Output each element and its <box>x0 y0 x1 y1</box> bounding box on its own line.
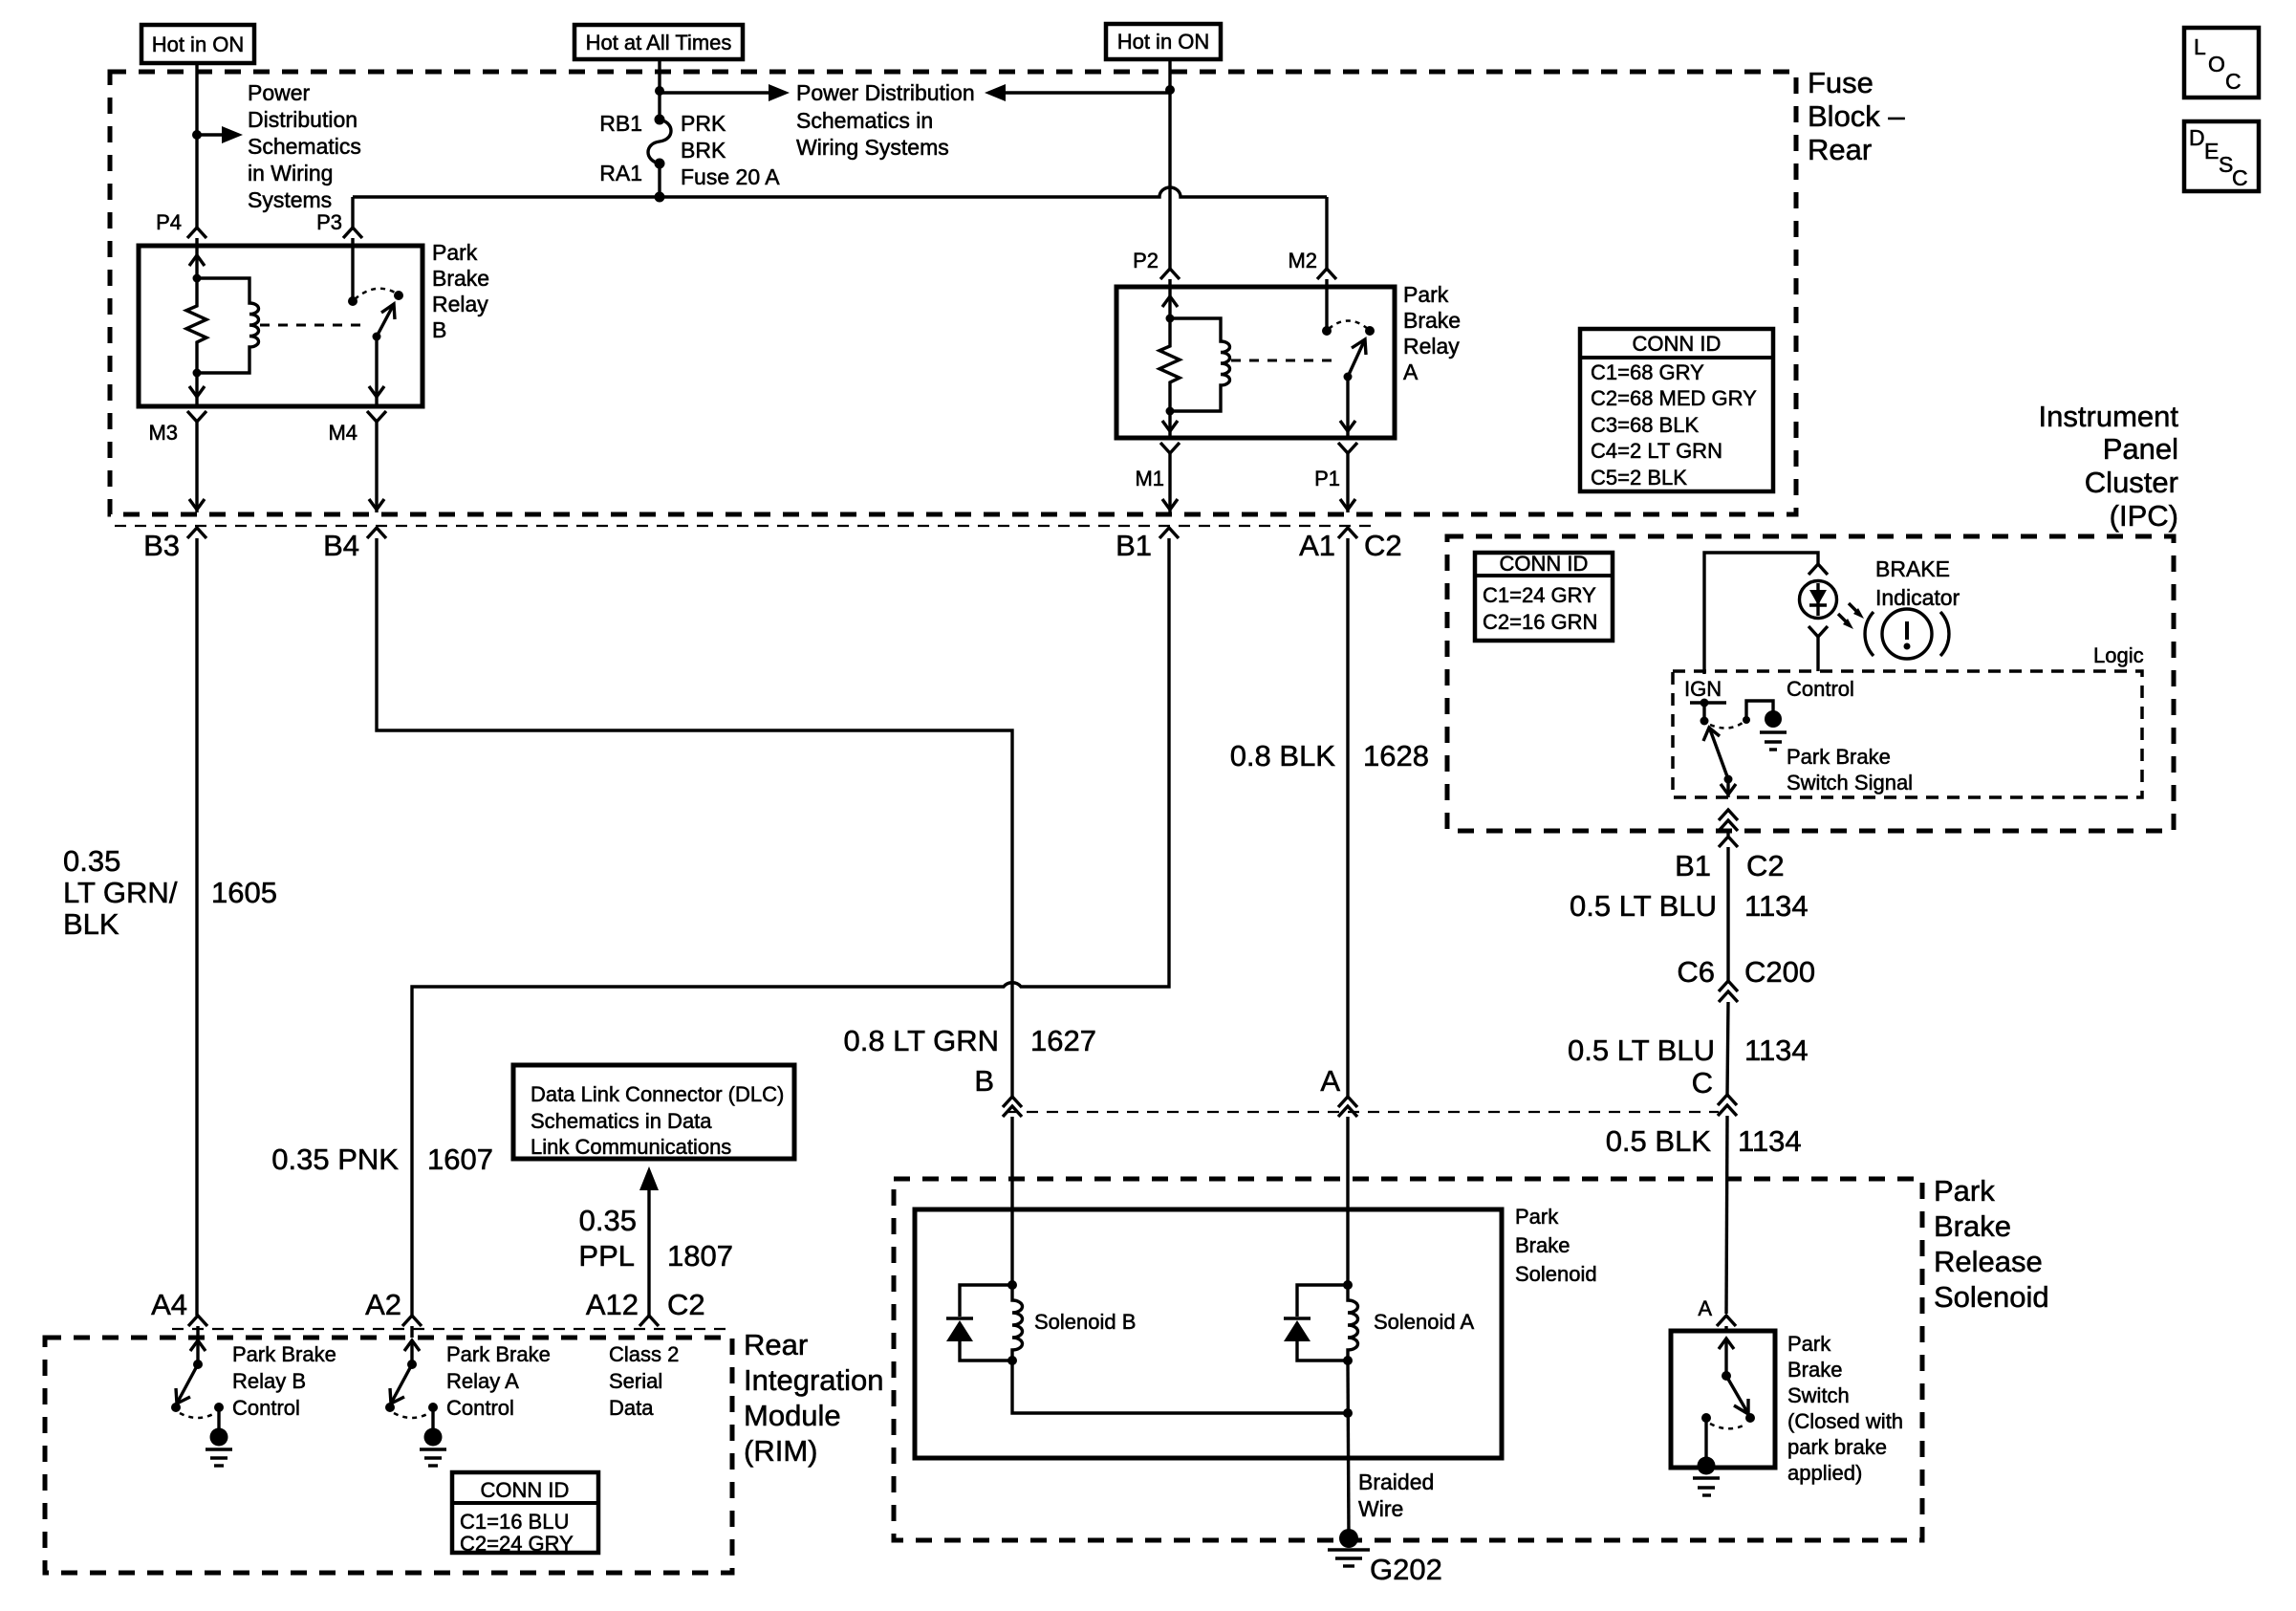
wire riser M2 <box>1325 197 1328 269</box>
svg-text:Hot in ON: Hot in ON <box>1117 30 1210 54</box>
svg-text:Block –: Block – <box>1808 99 1905 133</box>
Data Link Connector reference box <box>513 1065 794 1159</box>
CONN ID table (IPC) <box>1475 553 1613 641</box>
svg-text:1134: 1134 <box>1738 1124 1802 1158</box>
in-line connector dashed line (RIM harness) <box>172 1328 730 1330</box>
svg-text:A12: A12 <box>586 1288 639 1321</box>
svg-text:Park: Park <box>1787 1332 1831 1356</box>
in-line connector A (double chevron) <box>1338 1097 1357 1107</box>
svg-text:B: B <box>432 317 446 342</box>
svg-text:C4=2 LT GRN: C4=2 LT GRN <box>1591 439 1722 463</box>
svg-text:0.35: 0.35 <box>579 1204 637 1237</box>
svg-text:Panel: Panel <box>2103 432 2178 466</box>
svg-text:1807: 1807 <box>667 1239 733 1273</box>
svg-text:C3=68 BLK: C3=68 BLK <box>1591 413 1699 437</box>
svg-text:C5=2 BLK: C5=2 BLK <box>1591 466 1687 490</box>
svg-text:1134: 1134 <box>1744 889 1809 923</box>
svg-text:Wire: Wire <box>1358 1496 1403 1521</box>
park brake switch signal pivot <box>1702 703 1705 721</box>
svg-text:Solenoid: Solenoid <box>1515 1262 1597 1286</box>
wire to switch pivot <box>1724 1339 1727 1376</box>
svg-text:CONN ID: CONN ID <box>481 1478 570 1502</box>
svg-text:A: A <box>1698 1296 1712 1320</box>
svg-text:E: E <box>2204 139 2219 163</box>
svg-text:BLK: BLK <box>63 907 119 941</box>
wire fuse output down to bus <box>658 163 661 197</box>
RIM relay A control closed contact dot <box>428 1403 438 1412</box>
svg-text:C1=24 GRY: C1=24 GRY <box>1483 583 1596 607</box>
junction dot <box>192 130 202 140</box>
ground terminal dot (relay B control) <box>210 1428 228 1447</box>
node A4 connector <box>188 1316 207 1326</box>
svg-text:A: A <box>1320 1064 1340 1098</box>
svg-text:Brake: Brake <box>1787 1358 1842 1382</box>
svg-text:Park Brake: Park Brake <box>232 1342 336 1366</box>
svg-text:1134: 1134 <box>1744 1034 1809 1067</box>
svg-text:G202: G202 <box>1370 1553 1442 1586</box>
connector above BRAKE indicator <box>1809 564 1828 575</box>
wire contact to ground <box>1704 1418 1707 1463</box>
arrow to Power Distribution Schematics (left) <box>197 133 224 136</box>
svg-text:M4: M4 <box>328 421 357 445</box>
svg-text:Systems: Systems <box>248 187 332 212</box>
svg-text:B1: B1 <box>1675 849 1711 882</box>
diode (solenoid A flyback) <box>1297 1285 1348 1317</box>
svg-text:Integration: Integration <box>744 1363 884 1397</box>
svg-text:1628: 1628 <box>1363 739 1429 773</box>
svg-text:Park: Park <box>1515 1205 1559 1229</box>
pin P4 connector <box>187 228 206 238</box>
in-line connector dashed line (below fuse block) <box>115 525 1372 527</box>
svg-text:M1: M1 <box>1135 467 1164 490</box>
relay K-A Park Brake Relay A box <box>1116 287 1395 438</box>
svg-text:Switch Signal: Switch Signal <box>1787 771 1913 795</box>
svg-text:C6: C6 <box>1677 955 1715 989</box>
node B3 connector <box>187 528 206 538</box>
svg-text:Fuse: Fuse <box>1808 66 1874 99</box>
relay A switch pivot <box>1344 373 1353 381</box>
RIM relay B control open contact dot <box>171 1403 181 1412</box>
pin M4 connector <box>367 411 386 422</box>
relay B switch moving contact <box>394 291 403 300</box>
wire solenoid B return to common <box>1012 1361 1348 1413</box>
svg-text:RA1: RA1 <box>599 161 642 185</box>
arrow from Hot in ON (right) to Power Distribution label <box>985 84 1006 101</box>
svg-text:P1: P1 <box>1314 467 1340 490</box>
ground G202 symbol <box>1328 1548 1370 1551</box>
svg-text:C: C <box>1692 1066 1713 1099</box>
svg-text:Control: Control <box>446 1396 514 1420</box>
wire switch signal out of logic box with arrow <box>1726 779 1729 797</box>
in-line connector C200 (double chevron) <box>1719 981 1738 991</box>
svg-text:Hot in ON: Hot in ON <box>152 33 245 56</box>
relay A switch arm with arrowhead <box>1348 341 1364 377</box>
wire M3 to fuse block edge with arrow <box>195 422 198 512</box>
connector below BRAKE indicator <box>1809 626 1828 637</box>
IGN pin label <box>1680 674 1730 701</box>
wire B into solenoid box <box>1010 1117 1013 1285</box>
junction node top of coil network <box>193 274 202 283</box>
switch closed contact dot <box>1743 716 1750 724</box>
svg-text:Switch: Switch <box>1787 1383 1850 1407</box>
svg-text:Brake: Brake <box>1403 308 1461 333</box>
junction dot <box>1165 85 1175 95</box>
pin M2 connector <box>1317 269 1336 279</box>
resistor (relay B coil suppression) <box>186 278 206 373</box>
svg-text:C2: C2 <box>1746 849 1785 882</box>
LED lamp BRAKE indicator <box>1800 581 1837 619</box>
svg-text:CONN ID: CONN ID <box>1500 552 1589 576</box>
svg-text:Brake: Brake <box>432 266 489 291</box>
svg-text:RB1: RB1 <box>599 111 642 136</box>
relay B switch arm with arrowhead <box>377 306 393 337</box>
junction node top of coil network A <box>1166 315 1175 323</box>
pin P2 connector <box>1160 269 1180 279</box>
park brake switch pivot dot <box>1722 1371 1731 1381</box>
common junction dot <box>1343 1408 1353 1418</box>
coil (relay A) <box>1170 318 1230 411</box>
grounded contact bracket <box>1746 701 1773 720</box>
pin M3 connector <box>187 411 206 422</box>
svg-text:0.5 LT BLU: 0.5 LT BLU <box>1570 889 1717 923</box>
arrow to Power Distribution Schematics (center) <box>660 91 769 94</box>
diode (solenoid B flyback) <box>960 1285 1012 1317</box>
svg-text:0.35: 0.35 <box>63 844 120 878</box>
in-line connector dashed line (solenoid harness) <box>1007 1111 1719 1113</box>
RIM relay B control arm with arrowhead <box>178 1364 198 1402</box>
wire contact to ground (relay A control) <box>431 1407 434 1434</box>
pin P1 connector <box>1338 443 1357 453</box>
svg-text:C2=68 MED GRY: C2=68 MED GRY <box>1591 386 1757 410</box>
svg-text:Relay A: Relay A <box>446 1369 519 1393</box>
wire from Hot at All Times to fuse <box>658 59 661 120</box>
wire P3 into relay <box>351 238 354 301</box>
svg-text:Distribution: Distribution <box>248 107 357 132</box>
wire P1 to fuse block edge with arrow <box>1346 453 1349 512</box>
wire M4 to fuse block edge with arrow <box>375 422 378 512</box>
junction dot on bus <box>655 192 665 203</box>
in-line connector B (double chevron) <box>1003 1097 1022 1107</box>
svg-text:BRK: BRK <box>681 138 726 163</box>
wire from Hot in ON (left) to P4 <box>195 63 198 228</box>
LED emission arrows <box>1838 614 1849 624</box>
svg-text:0.5 LT BLU: 0.5 LT BLU <box>1568 1034 1715 1067</box>
svg-text:Brake: Brake <box>1934 1209 2011 1243</box>
solenoid A top junction dot <box>1343 1280 1353 1290</box>
svg-text:(IPC): (IPC) <box>2110 499 2178 533</box>
CONN ID table (RIM) <box>452 1472 598 1553</box>
node B4 connector <box>367 528 386 538</box>
RIM relay A control throw arc <box>394 1413 429 1418</box>
CONN ID table (fuse block) <box>1580 329 1773 491</box>
svg-text:Solenoid A: Solenoid A <box>1374 1310 1475 1334</box>
svg-text:A1: A1 <box>1299 529 1335 562</box>
svg-text:Solenoid B: Solenoid B <box>1034 1310 1136 1334</box>
svg-text:Class 2: Class 2 <box>609 1342 679 1366</box>
svg-text:Relay: Relay <box>432 292 488 316</box>
solenoid A bottom junction dot <box>1343 1356 1353 1365</box>
Instrument Panel Cluster dashed enclosure <box>1447 536 2174 831</box>
svg-text:Relay: Relay <box>1403 334 1460 359</box>
node A2 connector <box>402 1316 422 1326</box>
ground (relay B control) <box>206 1448 232 1450</box>
ground terminal dot (park brake switch) <box>1698 1457 1716 1475</box>
current arrow up inside park brake switch <box>1719 1339 1734 1349</box>
svg-text:C2=16 GRN: C2=16 GRN <box>1483 610 1597 634</box>
in-line connector C (double chevron) <box>1718 1095 1737 1105</box>
svg-text:Wiring Systems: Wiring Systems <box>796 135 949 160</box>
node A12 connector <box>639 1316 659 1326</box>
switch throw arc (logic) <box>1710 723 1743 729</box>
wire riser to P3 <box>351 197 354 228</box>
wire from Hot in ON (right) down through hop to P2 <box>1168 59 1171 269</box>
svg-text:Schematics: Schematics <box>248 134 361 159</box>
node A1 connector <box>1338 528 1357 538</box>
svg-text:Data: Data <box>609 1396 654 1420</box>
wire net 1134 IPC to C200 <box>1726 847 1729 981</box>
Park Brake Solenoid box <box>915 1209 1502 1458</box>
svg-text:PPL: PPL <box>578 1239 635 1273</box>
Park Brake Switch box <box>1671 1331 1775 1468</box>
svg-text:Control: Control <box>1787 677 1854 701</box>
IGN terminal bar <box>1690 701 1726 704</box>
coil Solenoid B <box>1012 1285 1023 1361</box>
RIM relay A control open contact dot <box>385 1403 395 1412</box>
relay K-B Park Brake Relay B box <box>139 246 422 406</box>
wire net 1607 B1 to RIM A2 (hop over solenoid B wire) <box>412 538 1169 1316</box>
svg-text:Park: Park <box>432 240 478 265</box>
svg-text:C1=68 GRY: C1=68 GRY <box>1591 360 1704 384</box>
bus wire from P3 to M2 with hop over P2 wire <box>353 187 1327 197</box>
dashed actuation link relay A <box>1231 359 1340 362</box>
power header box Hot at All Times <box>574 25 743 59</box>
wire M2 into relay A <box>1325 279 1328 331</box>
svg-text:C200: C200 <box>1744 955 1815 989</box>
solenoid B top junction dot <box>1007 1280 1017 1290</box>
svg-text:M3: M3 <box>148 421 178 445</box>
svg-text:Fuse 20 A: Fuse 20 A <box>681 164 780 189</box>
svg-text:LT GRN/: LT GRN/ <box>63 876 178 909</box>
in-line connector (logic to IPC edge, double chevron) <box>1719 810 1738 820</box>
svg-text:0.35 PNK: 0.35 PNK <box>271 1143 399 1176</box>
svg-text:P2: P2 <box>1133 249 1159 272</box>
svg-text:IGN: IGN <box>1684 677 1722 701</box>
svg-text:Logic: Logic <box>2093 643 2144 667</box>
svg-text:Relay B: Relay B <box>232 1369 306 1393</box>
wire net 1605 B3 to RIM A4 <box>195 538 198 1316</box>
RIM relay B control throw arc <box>180 1413 215 1418</box>
svg-text:Schematics in Data: Schematics in Data <box>531 1109 712 1133</box>
Fuse Block - Rear dashed enclosure <box>110 72 1796 514</box>
park brake switch throw arc <box>1710 1424 1745 1428</box>
power header box Hot in ON (left) <box>141 25 254 63</box>
pin P3 connector <box>343 228 362 238</box>
svg-text:PRK: PRK <box>681 111 726 136</box>
current arrow up inside relay A <box>1162 296 1178 307</box>
svg-text:B: B <box>974 1064 994 1098</box>
svg-text:Braided: Braided <box>1358 1469 1434 1494</box>
relay A switch moving contact <box>1365 326 1375 336</box>
ground terminal dot (relay A control) <box>424 1428 443 1447</box>
svg-text:A4: A4 <box>151 1288 187 1321</box>
RIM relay A control pivot dot <box>407 1360 417 1369</box>
LOC reference box <box>2184 28 2259 98</box>
power header box Hot in ON (right) <box>1106 24 1221 59</box>
svg-text:Power Distribution: Power Distribution <box>796 80 975 105</box>
park brake switch arm end dot <box>1745 1413 1755 1423</box>
svg-text:Instrument: Instrument <box>2039 400 2179 433</box>
svg-text:1605: 1605 <box>211 876 277 909</box>
svg-text:A2: A2 <box>365 1288 401 1321</box>
svg-text:applied): applied) <box>1787 1461 1862 1485</box>
svg-text:M2: M2 <box>1288 249 1317 272</box>
svg-text:Park Brake: Park Brake <box>1787 745 1891 769</box>
wire switch to M4 with arrow <box>375 337 378 406</box>
ground G202 terminal dot <box>1339 1529 1358 1548</box>
node A connector (park brake switch) <box>1717 1316 1736 1326</box>
wire net 1807 A12 to DLC with arrowhead <box>647 1188 650 1316</box>
svg-text:Park: Park <box>1934 1174 1995 1208</box>
svg-text:Park Brake: Park Brake <box>446 1342 551 1366</box>
RIM relay A control switch: arrow up <box>404 1340 420 1351</box>
svg-text:B3: B3 <box>143 529 180 562</box>
svg-text:C1=16 BLU: C1=16 BLU <box>460 1510 569 1534</box>
ground (park brake switch) <box>1693 1476 1720 1479</box>
DESC reference box <box>2184 121 2259 191</box>
wire M1 to fuse block edge with arrow <box>1168 453 1171 512</box>
svg-text:Park: Park <box>1403 282 1449 307</box>
wire coil to M3 with arrow <box>195 373 198 406</box>
relay A switch throw arc <box>1329 321 1368 330</box>
svg-text:Data Link Connector (DLC): Data Link Connector (DLC) <box>531 1082 784 1106</box>
svg-text:Schematics in: Schematics in <box>796 108 933 133</box>
node B1 connector <box>1159 528 1179 538</box>
svg-text:0.8 LT GRN: 0.8 LT GRN <box>843 1024 999 1057</box>
wire LED to logic Control <box>1816 637 1819 671</box>
svg-text:Release: Release <box>1934 1245 2043 1278</box>
Rear Integration Module dashed enclosure <box>45 1338 732 1573</box>
wire P4 into relay <box>195 238 198 278</box>
relay A switch fixed contact <box>1322 326 1332 336</box>
svg-text:C: C <box>2232 165 2248 190</box>
svg-text:Module: Module <box>744 1399 841 1432</box>
Park Brake Release Solenoid dashed enclosure <box>894 1179 1922 1540</box>
RIM relay B control pivot dot <box>193 1360 203 1369</box>
wire coil to M1 with arrow <box>1168 411 1171 438</box>
svg-text:Serial: Serial <box>609 1369 662 1393</box>
wire net 1134 C to park brake switch A <box>1726 1116 1727 1314</box>
svg-text:A: A <box>1403 359 1419 384</box>
svg-text:P3: P3 <box>316 210 342 234</box>
svg-text:park brake: park brake <box>1787 1435 1887 1459</box>
wire contact to ground (relay B control) <box>217 1407 220 1434</box>
ground (logic switch) <box>1760 730 1787 733</box>
wire P2 into relay A <box>1168 279 1171 318</box>
svg-text:1607: 1607 <box>427 1143 493 1176</box>
svg-text:1627: 1627 <box>1030 1024 1096 1057</box>
wire switch to P1 with arrow <box>1346 377 1349 438</box>
brake warning icon <box>1882 609 1932 659</box>
svg-text:B4: B4 <box>323 529 359 562</box>
svg-text:(RIM): (RIM) <box>744 1434 817 1468</box>
wire net 1628 A1 to solenoid A <box>1346 538 1349 1097</box>
IGN feed wire bracket in IPC <box>1704 553 1818 703</box>
svg-text:C2=24 GRY: C2=24 GRY <box>460 1532 574 1556</box>
RIM relay A control arm with arrowhead <box>392 1364 412 1402</box>
svg-text:CONN ID: CONN ID <box>1633 332 1722 356</box>
node B1/C2 connector at IPC bottom <box>1719 837 1738 847</box>
svg-text:Rear: Rear <box>744 1328 808 1361</box>
relay B switch pivot <box>373 333 381 341</box>
svg-text:Cluster: Cluster <box>2085 466 2178 499</box>
current arrow up inside relay B <box>189 255 205 266</box>
svg-text:Solenoid: Solenoid <box>1934 1280 2049 1314</box>
switch arm (logic) with arrowhead <box>1710 729 1728 779</box>
RIM relay B control closed contact dot <box>214 1403 224 1412</box>
svg-text:in Wiring: in Wiring <box>248 161 333 185</box>
svg-text:Hot at All Times: Hot at All Times <box>586 31 732 54</box>
svg-text:(Closed with: (Closed with <box>1787 1409 1903 1433</box>
relay B switch fixed contact <box>348 296 357 306</box>
park brake switch fixed contact dot <box>1701 1413 1711 1423</box>
fuse PRK BRK Fuse 20 A <box>655 115 665 125</box>
wire net 1627 B4 to solenoid B <box>377 538 1012 1097</box>
svg-text:C2: C2 <box>667 1288 705 1321</box>
svg-text:Power: Power <box>248 80 311 105</box>
junction node bottom of coil network A <box>1166 407 1175 416</box>
svg-text:D: D <box>2189 125 2205 150</box>
junction dot <box>655 86 664 96</box>
RIM relay B control switch: arrow up <box>190 1340 206 1351</box>
park brake switch arm with arrowhead <box>1726 1376 1747 1412</box>
Logic dashed box <box>1673 671 2142 797</box>
svg-text:Brake: Brake <box>1515 1233 1570 1257</box>
svg-text:0.5 BLK: 0.5 BLK <box>1606 1124 1712 1158</box>
svg-text:BRAKE: BRAKE <box>1875 556 1950 581</box>
svg-text:0.8 BLK: 0.8 BLK <box>1230 739 1336 773</box>
switch arm pivot dot (logic) <box>1724 775 1733 784</box>
coil (relay B) <box>197 278 259 373</box>
svg-text:O: O <box>2208 52 2225 76</box>
wire net 1134 C200 to C <box>1727 1002 1728 1095</box>
svg-text:Rear: Rear <box>1808 133 1872 166</box>
svg-text:C: C <box>2225 69 2242 94</box>
dashed actuation link relay B <box>260 324 369 327</box>
ground terminal dot (logic) <box>1765 710 1782 728</box>
svg-text:Control: Control <box>232 1396 300 1420</box>
relay B switch throw arc <box>355 289 397 299</box>
svg-text:L: L <box>2194 34 2206 59</box>
coil Solenoid A <box>1348 1285 1358 1361</box>
ground (relay A control) <box>420 1448 446 1450</box>
wire solenoid A to ground G202 (braided) <box>1348 1361 1349 1535</box>
svg-text:B1: B1 <box>1116 529 1152 562</box>
solenoid B bottom junction dot <box>1007 1356 1017 1365</box>
svg-text:Link Communications: Link Communications <box>531 1135 731 1159</box>
svg-text:C2: C2 <box>1364 529 1402 562</box>
svg-text:Indicator: Indicator <box>1875 585 1960 610</box>
wire A into solenoid box <box>1346 1117 1349 1285</box>
resistor (relay A coil suppression) <box>1159 318 1180 411</box>
pin M1 connector <box>1160 443 1180 453</box>
svg-text:P4: P4 <box>156 210 182 234</box>
junction node bottom of coil network <box>193 369 202 378</box>
